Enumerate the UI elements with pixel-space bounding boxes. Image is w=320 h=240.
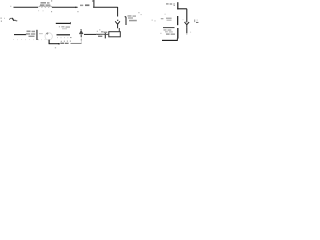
source lead down xyxy=(48,40,50,44)
wire into load box xyxy=(118,28,120,32)
wire right column lower xyxy=(186,27,188,33)
wire corner down from top rail xyxy=(117,7,119,17)
current source arrow (up) xyxy=(115,21,120,28)
capacitor C2 plate xyxy=(163,27,175,29)
wire stub to source xyxy=(39,33,43,35)
plus sign xyxy=(46,32,48,34)
diode D1 body bar xyxy=(125,17,126,25)
wire mid net segment xyxy=(56,22,70,24)
voltage source V2 circle xyxy=(45,33,52,40)
node dot xyxy=(117,20,118,21)
label net text below xyxy=(59,26,70,29)
label V2 text block xyxy=(26,31,35,38)
junction dot xyxy=(58,43,60,44)
inductor L1 body xyxy=(39,6,53,7)
resistor R3 body xyxy=(36,30,37,40)
node marks top right corner xyxy=(183,19,199,32)
current source I1 arrow (up) xyxy=(185,22,190,27)
wire bottom mid rail xyxy=(84,33,100,35)
label text right of box xyxy=(96,29,107,36)
label net name text above gap xyxy=(80,4,89,6)
diode D2 cathode mark xyxy=(80,28,82,31)
wire vertical stub to top edge node xyxy=(93,0,95,8)
wire faint vertical to bottom rail xyxy=(80,37,82,43)
wire bottom rail right xyxy=(71,42,82,44)
label R1 text xyxy=(161,14,172,21)
pin dots below net segment xyxy=(57,37,71,38)
diode D2 lead down xyxy=(80,34,82,37)
label D1 text xyxy=(128,12,142,21)
load box U1 xyxy=(109,32,121,37)
wire jumper top right xyxy=(177,8,187,10)
label C1 text xyxy=(166,3,175,6)
current arrow on top wire xyxy=(75,7,78,9)
wire mid-left net segment xyxy=(57,34,71,36)
label L1 value text xyxy=(38,0,52,11)
wire right column upper xyxy=(186,9,188,23)
wire bottom rail left xyxy=(49,43,60,45)
source AC squiggle left xyxy=(9,18,16,21)
resistor R1 body right xyxy=(177,16,178,25)
label C2 text rows xyxy=(160,29,175,35)
wire top rail right segment xyxy=(93,6,118,8)
capacitor C1 top lead xyxy=(177,2,178,9)
resistor R2 body right lower xyxy=(177,28,178,39)
wire top rail left segment xyxy=(14,6,39,8)
diode D2 triangle xyxy=(79,30,84,34)
shunt bar xyxy=(104,33,106,38)
label tiny marks far left xyxy=(1,6,18,22)
junction tick xyxy=(70,22,71,24)
faint dots row lower left xyxy=(13,11,79,40)
wire bottom right rail xyxy=(162,39,178,41)
label text in bottom rail gap xyxy=(55,41,71,49)
wire top rail mid segment xyxy=(52,6,78,8)
wire bottom left segment xyxy=(14,34,26,36)
